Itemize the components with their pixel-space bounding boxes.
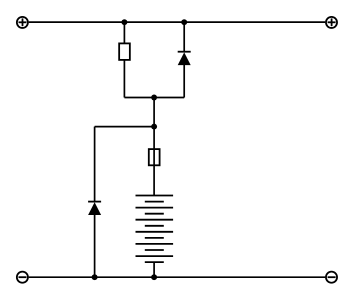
junction left branch at bottom rail [92, 274, 98, 280]
wire resistor branch top [123, 22, 125, 43]
junction battery at bottom rail [151, 274, 157, 280]
terminal T1 (+) top-left [17, 17, 28, 28]
wire joining resistor and diode branches [124, 97, 184, 99]
node B junction to left diode branch [151, 124, 157, 130]
resistor R1 [119, 43, 130, 60]
terminal T2 (+) top-right [326, 17, 337, 28]
wire top rail [29, 21, 326, 23]
terminal T4 (-) bottom-right [326, 272, 337, 283]
node A junction of parallel branches [151, 95, 157, 101]
fuse F1 [149, 149, 160, 165]
diode D1 [178, 52, 191, 65]
wire node B down through fuse to battery [153, 127, 155, 196]
wire diode D1 branch bottom [183, 64, 185, 98]
wire left branch down to diode D2 [94, 127, 96, 202]
junction on top rail at diode branch [181, 19, 187, 25]
battery BT1 [136, 196, 174, 263]
diode D2 [88, 202, 101, 215]
wire node B to left branch [95, 126, 155, 128]
wire node A down to node B [153, 98, 155, 127]
wire diode D1 branch top [183, 22, 185, 52]
junction on top rail at resistor branch [121, 19, 127, 25]
wire battery to bottom rail [153, 262, 155, 277]
terminal T3 (-) bottom-left [17, 272, 28, 283]
wire resistor branch bottom [123, 60, 125, 98]
wire bottom rail [29, 276, 326, 278]
wire diode D2 to bottom rail [94, 214, 96, 277]
